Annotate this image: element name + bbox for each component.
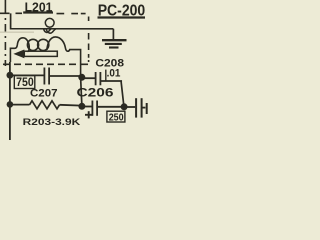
label PC-200 underline bbox=[98, 16, 146, 18]
node: junction dot C207 row bbox=[6, 72, 13, 79]
value box .01 bbox=[105, 70, 107, 81]
node: junction dot right bbox=[121, 103, 128, 110]
wire node to C206 bbox=[82, 106, 92, 108]
wire stub right bbox=[142, 107, 145, 109]
wire: link winding left leg and top wire bbox=[11, 13, 114, 28]
svg-text:.01: .01 bbox=[107, 67, 121, 79]
coil loop ring 2 bbox=[38, 39, 49, 50]
dash-dot board outline left edge bbox=[4, 0, 6, 66]
resistor R203 bbox=[10, 104, 30, 106]
coil L201 main winding: entry + left arch bbox=[10, 38, 30, 62]
dash-dot board outline right edge bbox=[88, 17, 90, 63]
dash-dot board outline bottom edge bbox=[3, 63, 91, 65]
svg-text:C207: C207 bbox=[30, 87, 58, 99]
node: junction dot R203/C206 bbox=[7, 101, 14, 108]
tuning slug arrow shaft bbox=[24, 51, 57, 56]
svg-text:R203-3.9K: R203-3.9K bbox=[23, 117, 81, 127]
coil loop ring 1 bbox=[27, 39, 38, 50]
wire C207 to node bbox=[50, 75, 82, 77]
label L201 underline bbox=[23, 11, 53, 13]
capacitor C206 plates bbox=[91, 101, 93, 116]
node: junction dot coil/C207/C208 bbox=[78, 74, 85, 81]
dash-dot board outline top edge bbox=[0, 12, 22, 14]
link winding loop above wire bbox=[45, 18, 54, 27]
capacitor plate at image edge bbox=[146, 103, 148, 114]
wire: node down to lower node bbox=[81, 77, 82, 106]
value box 750 bbox=[14, 76, 35, 89]
svg-text:250: 250 bbox=[109, 112, 124, 124]
capacitor C208 plates bbox=[95, 72, 97, 85]
tuning slug arrow head bbox=[13, 50, 24, 59]
C206 polarity plus sign bbox=[85, 114, 92, 116]
left bus wire bbox=[9, 62, 11, 140]
wire node to C208 bbox=[82, 77, 95, 79]
value box 250 bbox=[107, 111, 125, 122]
wire to C207 bbox=[10, 74, 44, 76]
wire C208 right lead, corner down to lower node bbox=[101, 81, 124, 106]
ground symbol bbox=[102, 39, 127, 41]
wire: down to ground bbox=[112, 29, 114, 40]
faint scanner streak bbox=[0, 31, 34, 33]
svg-text:PC-200: PC-200 bbox=[98, 3, 146, 20]
capacitor (edge) plates bbox=[135, 98, 137, 117]
link winding crossing dips below wire bbox=[44, 29, 56, 33]
capacitor C207 plates bbox=[43, 68, 45, 85]
svg-text:L201: L201 bbox=[25, 0, 53, 14]
wire C206 to right node bbox=[98, 106, 124, 108]
wire node to edge capacitor bbox=[124, 106, 135, 108]
svg-text:C206: C206 bbox=[77, 85, 115, 99]
coil right arch + exit lead to C208 node bbox=[47, 37, 81, 78]
